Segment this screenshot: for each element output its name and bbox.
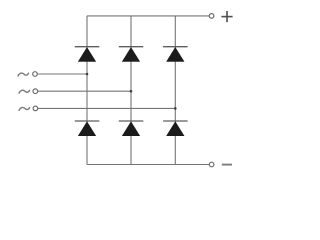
terminal AC phase 3 bbox=[19, 106, 177, 111]
circle terminal phase 1 bbox=[33, 72, 38, 77]
terminal AC phase 2 bbox=[19, 89, 132, 94]
junction node phase 3 bbox=[174, 107, 177, 110]
circle terminal DC positive bbox=[209, 14, 214, 19]
circle terminal DC negative bbox=[209, 162, 214, 167]
tilde phase 3 bbox=[19, 107, 30, 110]
label plus bbox=[221, 11, 232, 22]
wire phase 3 bbox=[38, 107, 176, 109]
wire phase 1 bbox=[37, 73, 87, 75]
wire leg 2 vertical bbox=[130, 16, 132, 165]
diode D5 upper leg 3 bbox=[163, 47, 188, 62]
diode D6 lower leg 2 bbox=[119, 121, 144, 136]
terminal AC phase 1 bbox=[18, 72, 88, 77]
diode D1 upper leg 1 bbox=[75, 47, 100, 62]
tilde phase 2 bbox=[19, 90, 30, 93]
circle terminal phase 3 bbox=[33, 106, 38, 111]
diode D3 upper leg 2 bbox=[119, 47, 144, 62]
wire leg 1 vertical bbox=[86, 16, 88, 165]
wire top positive bus bbox=[87, 15, 209, 17]
label minus bbox=[222, 164, 232, 166]
tilde phase 1 bbox=[18, 73, 29, 76]
wire phase 2 bbox=[38, 90, 131, 92]
junction node phase 1 bbox=[86, 73, 89, 76]
circle terminal phase 2 bbox=[33, 89, 38, 94]
diode D4 lower leg 1 bbox=[75, 121, 100, 136]
wire bottom negative bus bbox=[87, 164, 209, 166]
junction node phase 2 bbox=[130, 90, 133, 93]
wire leg 3 vertical bbox=[174, 16, 176, 165]
diode D2 lower leg 3 bbox=[163, 121, 188, 136]
